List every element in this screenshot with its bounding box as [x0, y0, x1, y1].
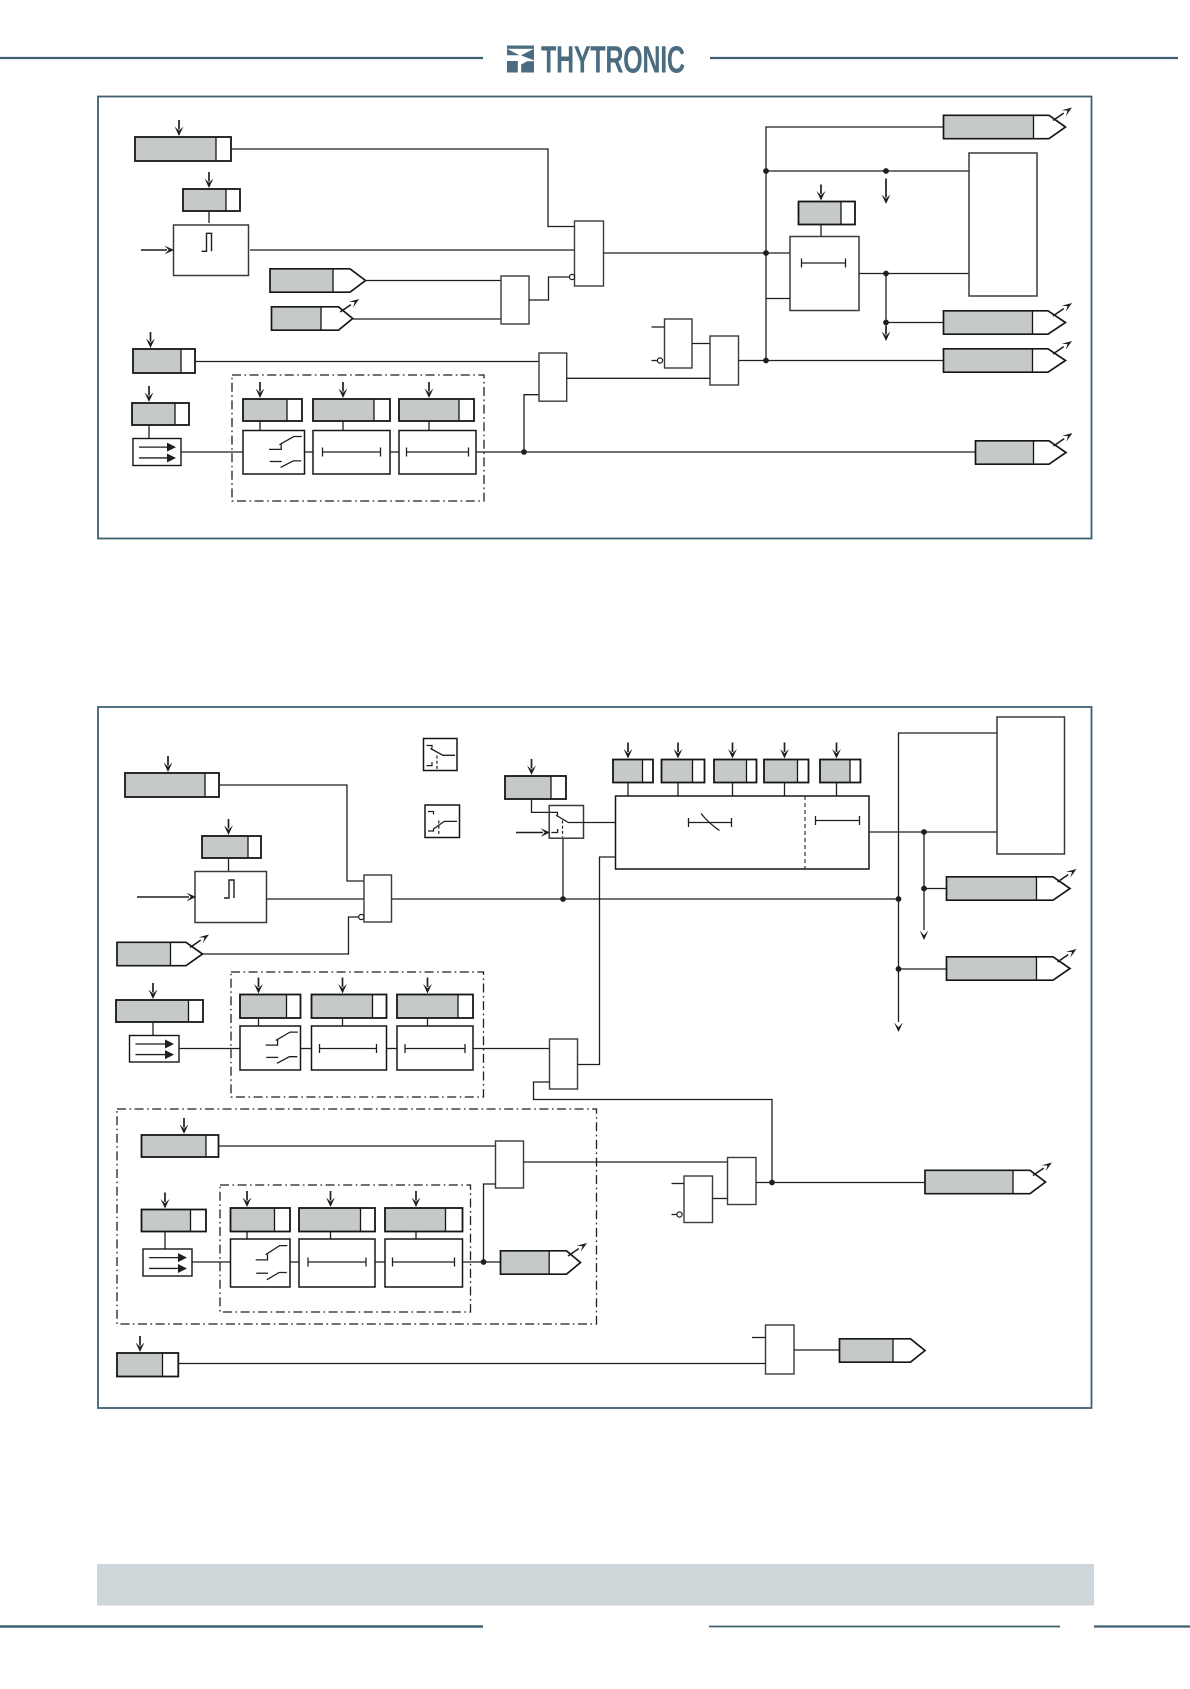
wire MS1 to gate G1 mid input [250, 249, 575, 251]
setting label U2 [202, 819, 261, 858]
arrow stub down [885, 326, 887, 335]
input arrow to MS1 [141, 249, 167, 251]
setting label TD2 [132, 386, 189, 425]
X2 connector [164, 1232, 166, 1250]
output tag OUT1 [944, 108, 1073, 139]
setting label V4 [764, 743, 809, 783]
junction [560, 896, 566, 902]
wire TS2 to monostable [208, 211, 210, 223]
V1 connector [627, 783, 629, 797]
svg-text:THYTRONIC: THYTRONIC [541, 38, 685, 80]
label TR1 connector [820, 225, 822, 237]
wire MB output [869, 831, 997, 833]
setting label X1 [142, 1118, 219, 1157]
V2 connector [677, 783, 679, 797]
branch down to R1 [923, 832, 925, 930]
output tag OUT4 [976, 433, 1073, 464]
TD2 connector [148, 425, 150, 439]
W1 connector [152, 1022, 154, 1036]
diagram 2 frame [98, 707, 1092, 1408]
wire TB4-TB5 [387, 1048, 398, 1050]
branch to OUT2 [886, 274, 944, 323]
U2 connector [228, 858, 230, 871]
junction [883, 320, 889, 326]
junction [521, 449, 527, 455]
wire GE output to tag V [794, 1349, 840, 1351]
wire group output to OUT4 [476, 451, 976, 453]
setting label V2 [662, 743, 705, 783]
group label GL9 [385, 1191, 463, 1232]
wire TB1 output [859, 273, 969, 275]
dash-dot group GR3 [117, 1109, 597, 1324]
wire BRK2 to group2 [179, 1048, 240, 1050]
junction [921, 886, 927, 892]
group label GL2 [313, 382, 390, 421]
AND gate GD [728, 1158, 757, 1205]
group label GL6 [397, 978, 473, 1019]
contact block CB2 [240, 1026, 301, 1070]
timer block TB4 [312, 1026, 387, 1070]
timer symbol in MB right part [816, 820, 860, 822]
GC inverter circle [677, 1212, 682, 1217]
wire JB2 output up to MB lower input [578, 857, 616, 1065]
group label GL3 [399, 382, 474, 421]
junction [763, 250, 769, 256]
wire GB output to OUT3 [739, 360, 944, 362]
wire SEL to big block [584, 822, 616, 824]
junction [769, 1180, 775, 1186]
GL1 connector [259, 421, 261, 430]
footer bar [97, 1564, 1094, 1606]
setting label U3 [505, 759, 566, 799]
arrow stub down [885, 179, 887, 198]
output tag U [925, 1163, 1052, 1194]
setting label TS2 [183, 172, 240, 211]
wire MS2 to gate G2 [267, 898, 365, 900]
branch up to JB3 [484, 1184, 496, 1262]
setting label V5 [820, 743, 861, 783]
AND gate GE [766, 1325, 795, 1374]
timer block TB2 [313, 431, 390, 475]
wire group2 to JB2 [473, 1048, 550, 1050]
junction block JB3 [496, 1141, 524, 1188]
junction [883, 271, 889, 277]
junction [763, 358, 769, 364]
group label GL7 [231, 1191, 291, 1232]
output tag OUT3 [944, 341, 1073, 372]
footer rule left [0, 1625, 483, 1627]
GA top stub [652, 326, 665, 328]
wire BLK to G2 inverted input [203, 917, 359, 954]
diagram 1 frame [98, 97, 1092, 539]
setting label V3 [714, 743, 757, 783]
wire to R2 [899, 968, 947, 970]
setting label TS1 [135, 120, 231, 161]
input arrow to MS2 [137, 896, 189, 898]
junction [763, 168, 769, 174]
wire IN1 to gate G0 [366, 280, 501, 282]
setting label X3 [117, 1336, 178, 1377]
GA inverter circle [657, 358, 662, 363]
setting label X2 [142, 1193, 207, 1232]
wire TS1 to gate G1 top input [231, 149, 575, 227]
junction [896, 896, 902, 902]
NAND gate G2 [364, 875, 392, 922]
junction [921, 829, 927, 835]
AND gate GB [710, 336, 739, 385]
selector switch block SEL [549, 806, 583, 839]
wire IN2 to gate G0 [353, 318, 501, 320]
GE top stub [752, 1337, 766, 1339]
input arrow to SEL [516, 832, 543, 834]
timer block TB6 [299, 1239, 375, 1287]
footer rule middle [709, 1626, 1060, 1628]
wire TB6-TB7 [375, 1261, 385, 1263]
input tag IN1 [270, 269, 366, 292]
wire U1 to gate G2 [219, 785, 364, 881]
group label GL5 [312, 978, 387, 1019]
G2 inverter circle [359, 914, 364, 919]
arrow head down [894, 1023, 903, 1033]
junction [481, 1259, 487, 1265]
GL4 connector [258, 1018, 260, 1026]
output tag R1 [947, 869, 1077, 900]
wire G2 output main [392, 898, 899, 900]
output tag R2 [947, 949, 1077, 980]
header rule left [0, 57, 483, 59]
monostable block MS2 [195, 872, 267, 923]
setting label TR1 [799, 185, 856, 225]
GA stub into circle [652, 360, 658, 362]
OR gate GC inverted input [684, 1176, 713, 1223]
group label GL8 [299, 1191, 375, 1232]
arrow head down [920, 931, 929, 941]
setting label U1 [125, 756, 219, 797]
AND gate G0 [501, 276, 529, 324]
GL5 connector [342, 1018, 344, 1026]
group label GL1 [243, 382, 302, 421]
wire JB3 output to gate GD [524, 1161, 728, 1163]
GL2 connector [342, 421, 344, 430]
V5 connector [836, 783, 838, 797]
GL6 connector [427, 1018, 429, 1026]
THYTRONIC logo mark [507, 46, 534, 73]
wire to R1 [924, 888, 947, 890]
header rule right [710, 57, 1178, 59]
GL8 connector [330, 1232, 332, 1240]
net bus vertical [766, 127, 944, 361]
dash-dot group GR1 [232, 375, 484, 501]
GL7 connector [246, 1232, 248, 1240]
output tag OUT2 [944, 303, 1073, 334]
dash-dot group GR4 [220, 1185, 471, 1312]
wire BRK1 to group [181, 451, 243, 453]
wire G0 to G1 inverted input [529, 277, 570, 300]
GL9 connector [415, 1232, 417, 1240]
wire GA to GB [692, 343, 710, 345]
GC stub into circle [672, 1214, 677, 1216]
output tag T [501, 1243, 588, 1274]
curve icon CRV1 [424, 739, 458, 771]
wire BRK3 to CB3 [192, 1261, 231, 1263]
setting label TD1 [133, 332, 195, 373]
input tag IN2 [272, 299, 360, 330]
main net vertical [899, 733, 998, 1022]
curve icon CRV2 [425, 805, 460, 838]
NAND gate G1 [575, 221, 604, 286]
setting label V1 [613, 743, 653, 783]
wire G1 output to SR block [604, 252, 791, 254]
GL3 connector [428, 421, 430, 430]
timer block TB1 [790, 237, 859, 311]
input tag BLK [117, 935, 209, 966]
wire GD output to tag U [756, 1182, 924, 1184]
footer rule right [1094, 1625, 1190, 1627]
wire JB2 lower path to gate net [534, 1082, 773, 1183]
group label GL4 [240, 978, 301, 1019]
contact block CB1 [243, 431, 305, 475]
junction block JB1 [539, 353, 567, 401]
timer block TB7 [385, 1239, 463, 1287]
breaker status block BRK1 [133, 439, 181, 466]
contact block CB3 [231, 1239, 291, 1287]
GC top stub [672, 1183, 685, 1185]
G1 inverter circle [569, 274, 574, 279]
timer block TB3 [399, 431, 476, 475]
wire CB3-TB6 [290, 1261, 299, 1263]
wire X1 to JB3 [219, 1145, 496, 1147]
V4 connector [784, 783, 786, 797]
breaker status block BRK2 [130, 1036, 180, 1063]
wire TB7 to tag T [463, 1261, 501, 1263]
wire TD1 to junction block JB1 [195, 361, 539, 363]
branch to JB1 [524, 395, 539, 452]
breaker status block BRK3 [143, 1249, 192, 1276]
wire bus to TB1 lower input [766, 298, 790, 300]
wire bus to logic box [766, 170, 969, 172]
monostable block MS1 [174, 225, 249, 276]
OR gate GA inverted input [665, 319, 693, 368]
wire GC to GD [713, 1198, 728, 1200]
output tag V [840, 1339, 926, 1362]
junction block JB2 [550, 1039, 578, 1089]
wire X3 to GE [178, 1363, 765, 1365]
measuring block MB [616, 796, 870, 869]
dash-dot group GR2 [231, 972, 484, 1097]
wire CB1-TB2 [305, 451, 314, 453]
junction [883, 168, 889, 174]
timer block TB5 [397, 1026, 473, 1070]
junction [896, 966, 902, 972]
logic box LB2 [997, 717, 1065, 854]
U3 connector [532, 799, 550, 812]
wire TB2-TB3 [390, 451, 399, 453]
SEL bottom connector to main net [562, 838, 564, 899]
V3 connector [732, 783, 734, 797]
wire JB1 to GB lower input [567, 377, 710, 379]
logic box LB1 [969, 153, 1037, 296]
wire CB2-TB4 [301, 1048, 312, 1050]
setting label W1 [116, 983, 203, 1022]
